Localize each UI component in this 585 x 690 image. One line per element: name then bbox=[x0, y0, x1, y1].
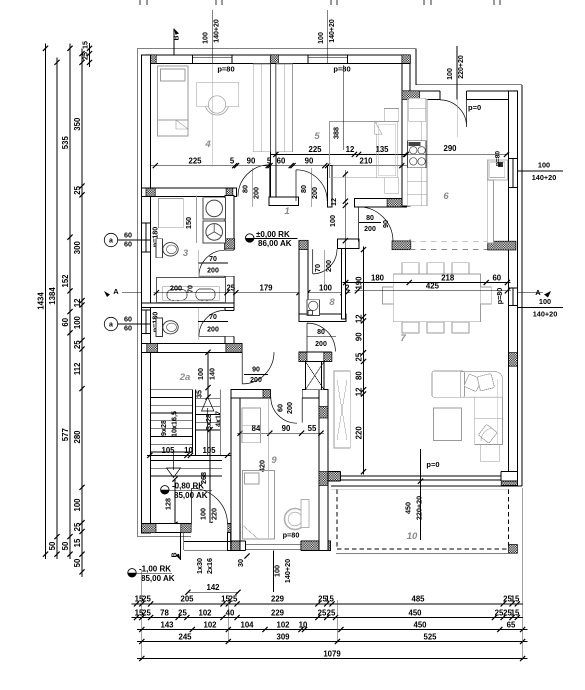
svg-text:4x17: 4x17 bbox=[214, 411, 223, 427]
svg-text:200: 200 bbox=[364, 226, 376, 233]
wall: lobby front of room9 bbox=[299, 352, 331, 361]
svg-text:225: 225 bbox=[188, 156, 202, 165]
svg-text:200: 200 bbox=[285, 402, 294, 414]
wall: hall bottom stub bbox=[337, 239, 359, 249]
wall: alcove jog bbox=[328, 165, 332, 206]
svg-text:268: 268 bbox=[199, 472, 208, 484]
svg-text:220+20: 220+20 bbox=[415, 496, 424, 520]
stair up arrow bbox=[207, 408, 209, 455]
wall: room5 bottom alcove bbox=[354, 199, 406, 207]
svg-text:12: 12 bbox=[346, 145, 355, 154]
sofa bbox=[432, 371, 465, 397]
svg-text:210: 210 bbox=[359, 156, 373, 165]
svg-text:78: 78 bbox=[160, 608, 169, 617]
wall: niche bottom bbox=[269, 197, 299, 205]
bed room4 bbox=[158, 66, 188, 136]
column hatch entry 1 bbox=[142, 524, 156, 533]
door corridor arc bbox=[307, 323, 335, 351]
svg-text:50: 50 bbox=[73, 558, 82, 567]
svg-text:15: 15 bbox=[80, 41, 89, 49]
svg-text:60: 60 bbox=[277, 156, 286, 165]
svg-text:90: 90 bbox=[354, 332, 363, 341]
bed room5 bbox=[329, 121, 397, 177]
svg-text:40: 40 bbox=[226, 608, 235, 617]
svg-text:A: A bbox=[113, 287, 119, 296]
svg-text:25: 25 bbox=[226, 283, 235, 292]
wall: room9 left bbox=[231, 390, 240, 541]
svg-text:2a: 2a bbox=[179, 372, 191, 383]
door stairhall arc bbox=[242, 352, 274, 384]
window p=80 room6 right bbox=[508, 159, 518, 188]
column hatch room8 bottom-left bbox=[299, 314, 308, 321]
svg-text:218: 218 bbox=[441, 273, 455, 282]
svg-text:60: 60 bbox=[124, 324, 132, 333]
svg-text:70: 70 bbox=[187, 285, 194, 293]
wall: room8 right bbox=[342, 248, 346, 319]
svg-text:135: 135 bbox=[375, 145, 389, 154]
circle-a wc2 bbox=[104, 317, 117, 330]
door wc2 arc bbox=[199, 310, 225, 336]
svg-text:450: 450 bbox=[404, 502, 413, 514]
svg-text:425: 425 bbox=[426, 281, 440, 290]
svg-text:104: 104 bbox=[240, 620, 254, 629]
svg-text:80: 80 bbox=[354, 371, 363, 380]
dimension row hall width bbox=[153, 292, 350, 294]
svg-text:80: 80 bbox=[299, 185, 308, 193]
svg-text:25: 25 bbox=[327, 608, 336, 617]
svg-text:100: 100 bbox=[447, 68, 454, 80]
svg-text:50: 50 bbox=[61, 541, 70, 550]
window p=80 room4 top bbox=[193, 55, 233, 64]
svg-text:105: 105 bbox=[161, 446, 175, 455]
svg-text:205: 205 bbox=[180, 595, 194, 604]
svg-text:100: 100 bbox=[273, 565, 282, 577]
svg-text:225: 225 bbox=[308, 145, 322, 154]
column hatch beam right bbox=[488, 241, 516, 250]
svg-text:450: 450 bbox=[413, 620, 427, 629]
column hatch top-right corner bbox=[509, 91, 518, 100]
coffee table bbox=[434, 408, 462, 441]
door room8 arc bbox=[313, 249, 337, 274]
svg-text:220: 220 bbox=[354, 426, 363, 440]
svg-text:25: 25 bbox=[142, 595, 151, 604]
svg-text:100: 100 bbox=[328, 215, 337, 227]
svg-text:84: 84 bbox=[252, 424, 261, 433]
column hatch room9 bottom bbox=[301, 541, 331, 550]
svg-text:30: 30 bbox=[236, 559, 245, 567]
column hatch lobby right bbox=[324, 352, 332, 361]
svg-text:55: 55 bbox=[308, 424, 317, 433]
svg-text:70: 70 bbox=[209, 256, 217, 263]
terrace dashed bottom bbox=[337, 548, 509, 550]
svg-text:102: 102 bbox=[276, 620, 290, 629]
svg-text:143: 143 bbox=[160, 620, 174, 629]
column hatch top-left bbox=[146, 55, 156, 64]
door wc3 gap bbox=[225, 250, 235, 276]
svg-text:15: 15 bbox=[325, 595, 334, 604]
svg-text:90: 90 bbox=[252, 367, 260, 374]
svg-text:200: 200 bbox=[250, 377, 262, 384]
column hatch right wall bottom bbox=[501, 472, 517, 486]
dimension col 1434 bbox=[45, 43, 47, 559]
svg-text:102: 102 bbox=[203, 620, 217, 629]
cupboard room6 right wall bbox=[487, 180, 493, 243]
svg-text:1x30: 1x30 bbox=[195, 558, 204, 574]
svg-text:25: 25 bbox=[80, 52, 89, 60]
svg-text:200: 200 bbox=[324, 260, 333, 272]
shower room3 bbox=[159, 199, 184, 228]
top leader door6 bbox=[456, 46, 458, 100]
svg-text:7: 7 bbox=[400, 333, 406, 344]
column hatch top wall kitchen bbox=[402, 55, 411, 64]
svg-text:100: 100 bbox=[539, 297, 551, 306]
svg-text:12: 12 bbox=[329, 198, 338, 206]
level mark hall bbox=[246, 234, 254, 242]
opening 6-7 dashed beam bbox=[410, 241, 488, 243]
washbasin room9 bbox=[285, 509, 306, 530]
window p=80 room7 right bbox=[508, 288, 518, 306]
dim 268 entry bbox=[209, 430, 211, 525]
wall: wc divider bbox=[142, 303, 234, 307]
svg-text:128: 128 bbox=[164, 498, 173, 510]
svg-text:140+20: 140+20 bbox=[329, 19, 336, 43]
terrace door leader bbox=[420, 449, 422, 540]
wall: top exterior room 6 bbox=[410, 91, 518, 100]
svg-text:180: 180 bbox=[371, 273, 385, 282]
column hatch wc right wall bbox=[225, 239, 235, 249]
column hatch room9 right 2 bbox=[319, 472, 328, 486]
column hatch room8 top-left bbox=[299, 240, 308, 249]
column hatch right wall mid bbox=[509, 353, 518, 367]
door wc2 gap bbox=[225, 310, 235, 336]
closet room5 bbox=[276, 64, 292, 152]
svg-text:25: 25 bbox=[229, 595, 238, 604]
window p=180 wc2 bbox=[141, 310, 151, 334]
leader window7 right bbox=[518, 307, 564, 309]
dining chairs bbox=[402, 263, 419, 274]
column hatch hall bottom bbox=[392, 241, 411, 250]
svg-text:280: 280 bbox=[73, 430, 82, 444]
dimension row dining 1 bbox=[343, 282, 511, 284]
stair flight down-left 9x28 bbox=[150, 389, 193, 391]
svg-text:535: 535 bbox=[61, 136, 70, 150]
dimension col living room bbox=[363, 247, 365, 475]
dimension row room5 widths bbox=[271, 153, 411, 155]
wall: room9 top bbox=[231, 390, 328, 398]
wall: entry step right bbox=[228, 533, 241, 551]
svg-text:179: 179 bbox=[259, 283, 273, 292]
wall: room9 right bbox=[319, 390, 328, 551]
door room9 gap bbox=[271, 389, 303, 398]
svg-text:8: 8 bbox=[329, 297, 335, 308]
svg-text:200: 200 bbox=[207, 268, 219, 275]
terrace dashed left bbox=[336, 489, 338, 549]
column hatch room9 right 1 bbox=[319, 407, 328, 419]
svg-text:220+20: 220+20 bbox=[458, 55, 465, 79]
svg-text:60: 60 bbox=[124, 240, 132, 249]
porch slab bbox=[183, 533, 185, 550]
dim 128 entry bbox=[174, 479, 176, 524]
svg-text:15: 15 bbox=[511, 608, 520, 617]
svg-text:p=0: p=0 bbox=[468, 103, 481, 112]
stair flight middle 3x28 bbox=[195, 398, 220, 400]
svg-text:85,00 AK: 85,00 AK bbox=[174, 491, 208, 500]
wall: room9 bottom bbox=[240, 541, 330, 550]
svg-text:577: 577 bbox=[61, 428, 70, 441]
wall: divider room5/kitchen bbox=[402, 64, 410, 206]
extension lines bottom bbox=[141, 570, 143, 660]
dimension bottom row 3 bbox=[137, 629, 528, 631]
svg-text:12: 12 bbox=[354, 387, 363, 396]
dimension row dining 425 bbox=[354, 290, 511, 292]
svg-text:90: 90 bbox=[381, 220, 390, 228]
svg-text:70: 70 bbox=[313, 264, 322, 272]
svg-text:245: 245 bbox=[178, 632, 192, 641]
svg-text:100: 100 bbox=[318, 32, 325, 44]
svg-text:90: 90 bbox=[282, 424, 291, 433]
column hatch entry 3 bbox=[228, 524, 241, 533]
terrace dashed right bbox=[508, 489, 510, 549]
svg-text:25: 25 bbox=[178, 608, 187, 617]
svg-text:6: 6 bbox=[443, 191, 449, 202]
hall dim col bbox=[344, 170, 346, 249]
door room4 arc bbox=[238, 165, 270, 197]
boiler room8 bbox=[307, 300, 319, 316]
svg-text:80: 80 bbox=[317, 329, 325, 336]
top leader window5 bbox=[327, 10, 329, 63]
svg-text:200: 200 bbox=[207, 327, 219, 334]
bottom leader window9 bbox=[273, 550, 275, 592]
dryer bbox=[203, 221, 225, 243]
svg-text:100: 100 bbox=[319, 283, 333, 292]
svg-text:60: 60 bbox=[124, 315, 132, 324]
svg-text:485: 485 bbox=[411, 595, 425, 604]
svg-text:25: 25 bbox=[73, 522, 82, 531]
svg-text:140+20: 140+20 bbox=[532, 173, 557, 182]
svg-text:p=80: p=80 bbox=[283, 531, 300, 540]
svg-text:100: 100 bbox=[199, 508, 208, 520]
glass door p=0 terrace bbox=[340, 471, 501, 481]
dimension row room9 bbox=[237, 432, 324, 434]
dimension bottom row 4 bbox=[137, 641, 528, 643]
dimension col details left bbox=[81, 49, 83, 577]
svg-text:15: 15 bbox=[73, 538, 82, 547]
dimension bottom row 5 bbox=[137, 658, 528, 660]
svg-text:65: 65 bbox=[507, 620, 516, 629]
level mark -0.80 bbox=[161, 486, 169, 494]
column hatch room4 bottom left bbox=[146, 188, 155, 196]
svg-text:229: 229 bbox=[271, 608, 285, 617]
kitchen counter bbox=[407, 100, 427, 206]
wall: divider rooms 4/5 bbox=[270, 64, 276, 202]
svg-text:1384: 1384 bbox=[48, 287, 57, 305]
dining table bbox=[393, 274, 480, 322]
dimension stairs width bbox=[147, 454, 231, 456]
washer niche line bbox=[196, 196, 198, 243]
top cropped glyphs bbox=[139, 0, 141, 5]
dim 290 kitchen bbox=[406, 153, 508, 155]
dimension col top 25/15 bbox=[89, 43, 91, 67]
svg-text:35: 35 bbox=[195, 390, 204, 398]
svg-text:200: 200 bbox=[315, 341, 327, 348]
svg-text:25: 25 bbox=[354, 352, 363, 361]
toilet wc3 bbox=[156, 239, 163, 258]
svg-text:100: 100 bbox=[196, 368, 205, 380]
door wc3 arc bbox=[199, 250, 225, 276]
svg-text:200: 200 bbox=[170, 283, 182, 292]
entry door gap bbox=[191, 523, 228, 533]
door hall-living arc bbox=[358, 207, 393, 242]
svg-text:a: a bbox=[109, 322, 113, 329]
svg-text:5: 5 bbox=[314, 131, 320, 142]
dim 388 room5 bbox=[342, 65, 344, 150]
column hatch living bottom left bbox=[325, 472, 341, 481]
wall: entry bottom bbox=[142, 524, 241, 533]
wall: hall top (room5 side) bbox=[328, 165, 332, 174]
svg-text:2x16: 2x16 bbox=[205, 558, 214, 574]
wall: left exterior bbox=[142, 55, 151, 533]
dim 142 porch bbox=[188, 591, 238, 593]
svg-text:60: 60 bbox=[492, 273, 501, 282]
dimension bottom row 2 bbox=[132, 617, 523, 619]
svg-text:142: 142 bbox=[206, 583, 220, 592]
svg-text:4: 4 bbox=[204, 139, 211, 150]
svg-text:85,00 AK: 85,00 AK bbox=[141, 574, 175, 583]
svg-text:229: 229 bbox=[271, 595, 285, 604]
svg-text:1434: 1434 bbox=[36, 292, 45, 310]
stair down arrow bbox=[173, 452, 175, 470]
svg-text:525: 525 bbox=[423, 632, 437, 641]
svg-text:1: 1 bbox=[284, 206, 289, 217]
svg-text:86,00 AK: 86,00 AK bbox=[258, 239, 292, 248]
column hatch lobby left bbox=[299, 352, 307, 361]
svg-text:220: 220 bbox=[210, 508, 219, 520]
svg-text:150: 150 bbox=[184, 217, 193, 229]
window p=80 room5 top bbox=[308, 55, 348, 64]
svg-text:450: 450 bbox=[408, 608, 422, 617]
column hatch stair top right bbox=[226, 344, 242, 353]
column hatch room4 bottom right bbox=[226, 188, 233, 196]
svg-text:5: 5 bbox=[230, 156, 235, 165]
washing machine bbox=[203, 198, 225, 220]
desk room4 bbox=[197, 82, 239, 107]
svg-text:140+20: 140+20 bbox=[214, 19, 221, 43]
svg-text:5: 5 bbox=[267, 156, 272, 165]
svg-text:10: 10 bbox=[407, 531, 418, 542]
leader window6 right bbox=[518, 170, 564, 172]
svg-text:25: 25 bbox=[142, 608, 151, 617]
svg-text:9x28: 9x28 bbox=[159, 420, 168, 436]
top leader window4 bbox=[211, 10, 213, 63]
svg-text:25: 25 bbox=[73, 340, 82, 349]
svg-text:388: 388 bbox=[332, 127, 341, 139]
svg-text:102: 102 bbox=[198, 608, 212, 617]
dimension col rooms left bbox=[69, 43, 71, 559]
svg-text:3: 3 bbox=[183, 248, 189, 259]
dimension bottom row 1 bbox=[132, 603, 523, 605]
sink counter wc3 bbox=[156, 278, 225, 303]
svg-text:80: 80 bbox=[366, 215, 374, 222]
svg-text:10: 10 bbox=[184, 446, 193, 455]
svg-text:190: 190 bbox=[354, 276, 363, 290]
bed room9 bbox=[242, 470, 274, 539]
svg-text:60: 60 bbox=[124, 231, 132, 240]
shaft X brace bbox=[305, 362, 324, 390]
kitchen sink bbox=[488, 160, 508, 180]
column hatch top wall 4/5 bbox=[270, 55, 278, 64]
svg-text:12: 12 bbox=[73, 298, 82, 307]
svg-text:100: 100 bbox=[203, 32, 210, 44]
column hatch room5 bottom bbox=[387, 199, 407, 207]
svg-text:60: 60 bbox=[61, 317, 70, 326]
eave outline line bbox=[137, 48, 416, 50]
svg-text:p=0: p=0 bbox=[426, 460, 439, 469]
window p=80 room9 bottom bbox=[246, 541, 302, 551]
wall: room8 bottom bbox=[299, 314, 346, 321]
svg-text:70: 70 bbox=[209, 314, 217, 321]
svg-text:90: 90 bbox=[247, 156, 256, 165]
svg-text:±0,00 RK: ±0,00 RK bbox=[256, 230, 290, 239]
svg-text:p=80: p=80 bbox=[495, 151, 502, 167]
svg-text:25: 25 bbox=[318, 608, 327, 617]
door gap p=0 room6 bbox=[440, 90, 467, 100]
svg-text:300: 300 bbox=[73, 241, 82, 255]
svg-text:25: 25 bbox=[73, 185, 82, 194]
level mark -1.00 bbox=[128, 569, 136, 577]
stove bbox=[407, 141, 426, 168]
shaft walls bbox=[305, 362, 324, 390]
svg-text:15: 15 bbox=[511, 595, 520, 604]
svg-text:80: 80 bbox=[241, 185, 250, 193]
nightstand room5 bbox=[384, 109, 399, 122]
wall: room8 left bbox=[299, 240, 308, 321]
door p=0 arc room6 bbox=[440, 100, 467, 128]
svg-text:10x16,5: 10x16,5 bbox=[170, 411, 179, 437]
svg-text:112: 112 bbox=[73, 362, 82, 375]
window p=180 wc3 bbox=[141, 223, 151, 252]
svg-text:140+20: 140+20 bbox=[533, 310, 558, 319]
stool room4 bbox=[208, 96, 225, 113]
basin 1 bbox=[167, 290, 187, 301]
svg-text:140: 140 bbox=[208, 368, 217, 380]
circle-a wc3 bbox=[104, 233, 117, 246]
svg-text:p=80: p=80 bbox=[495, 288, 504, 305]
stair lower treads bbox=[150, 459, 222, 461]
svg-text:50: 50 bbox=[48, 541, 57, 550]
entry door arc bbox=[192, 488, 228, 524]
terrace paving edge bbox=[331, 488, 509, 490]
svg-text:10: 10 bbox=[299, 620, 308, 629]
svg-text:100: 100 bbox=[538, 161, 550, 170]
svg-text:60: 60 bbox=[276, 404, 285, 412]
svg-text:140+20: 140+20 bbox=[283, 559, 292, 583]
wall: wc right bbox=[225, 196, 234, 344]
wall: stair hall top bbox=[142, 344, 242, 353]
svg-text:100: 100 bbox=[73, 498, 82, 512]
svg-text:350: 350 bbox=[73, 117, 82, 131]
svg-text:B: B bbox=[174, 35, 181, 40]
svg-text:105: 105 bbox=[202, 446, 216, 455]
door room9 arc bbox=[271, 397, 302, 423]
wall: room4 bottom / hall top bbox=[142, 188, 237, 196]
column hatch stair top left bbox=[147, 344, 158, 353]
closet room4 bbox=[253, 64, 270, 152]
column hatch beam left bbox=[409, 239, 411, 241]
dimension row room4/hall widths bbox=[150, 165, 407, 167]
svg-text:290: 290 bbox=[443, 144, 457, 153]
svg-text:152: 152 bbox=[61, 274, 70, 288]
svg-text:9: 9 bbox=[271, 455, 277, 466]
